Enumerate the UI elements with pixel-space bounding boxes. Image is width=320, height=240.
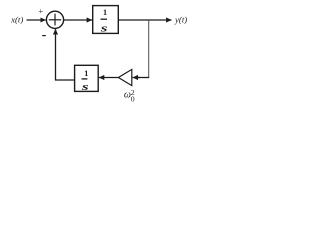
summing junction plus cross [49,19,61,21]
minus sign label at summer feedback input [42,35,46,37]
svg-text:1: 1 [84,69,88,78]
svg-text:s: s [80,81,88,93]
svg-text:y(t): y(t) [174,15,187,25]
wire U2 output left then up into summer negative input [56,30,75,80]
svg-text:+: + [38,6,43,16]
integrator block U2 [75,65,99,91]
wire feedback elbow horizontal [136,77,149,79]
svg-text:x(t): x(t) [10,14,23,24]
wire summer to integrator U1 [64,19,92,21]
integrator block U1 [93,6,119,34]
svg-text:s: s [99,23,107,35]
svg-text:1: 1 [103,8,107,17]
svg-text:0: 0 [131,94,135,103]
wire arrow into gain triangle base [133,77,140,79]
wire input arrow into summer [27,19,46,21]
wire triangle to integrator U2 [99,77,119,79]
summing junction circle [46,11,63,28]
wire feedback tap vertical drop [148,21,150,78]
gain triangle [118,69,131,85]
wire U1 to output y(t) [118,19,171,21]
